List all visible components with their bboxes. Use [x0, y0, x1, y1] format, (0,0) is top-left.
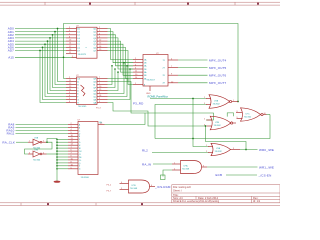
IC U2 74LS165 body — [76, 75, 97, 108]
wire vertical net x193 — [193, 99, 209, 147]
IC U2 pin numbers — [69, 77, 102, 103]
IC U7 pin names — [79, 123, 83, 170]
sheet frame top — [0, 2, 280, 5]
svg-text:MPX_OUT4: MPX_OUT4 — [209, 58, 227, 62]
svg-text:74LS02: 74LS02 — [244, 116, 252, 118]
title block — [172, 185, 280, 203]
svg-text:U?B: U?B — [34, 149, 39, 151]
wire column to ground — [56, 166, 58, 181]
wire bus drop verticals to U2 — [40, 29, 66, 103]
svg-text:P3_RD: P3_RD — [133, 102, 144, 106]
wire dot column vertical — [56, 139, 58, 167]
svg-text:U?A: U?A — [216, 147, 221, 150]
svg-text:ROM8_PanelMux: ROM8_PanelMux — [148, 95, 169, 99]
svg-text:RA_CLK: RA_CLK — [2, 140, 15, 144]
svg-text:File: testing.sch: File: testing.sch — [173, 185, 192, 189]
IC U1 pin names — [77, 28, 97, 52]
svg-text:U?B: U?B — [132, 185, 137, 187]
wire AD0 bus to U1 — [15, 29, 66, 51]
IC U2 pin names — [77, 78, 97, 104]
svg-text:Date: 2 Feb 2012: Date: 2 Feb 2012 — [198, 196, 219, 200]
IC U3 left pins — [133, 60, 143, 85]
svg-text:RA_W: RA_W — [142, 162, 151, 166]
wire WR0 out to label — [240, 149, 258, 151]
IC U2 right pins — [97, 79, 108, 103]
nor gate U4C — [236, 108, 267, 121]
svg-text:RA11: RA11 — [7, 132, 15, 136]
sheet frame bottom — [0, 203, 280, 206]
svg-text:Sheet: /: Sheet: / — [173, 189, 182, 193]
inverter U8B — [28, 149, 47, 161]
IC U3 74LS157 body — [143, 53, 168, 86]
wire RL2 to gate U5A — [152, 152, 209, 154]
svg-text:74LS04: 74LS04 — [33, 159, 41, 161]
wire feedback F out y141.5 — [206, 126, 247, 150]
wire U1 outputs fan to U3 — [108, 29, 134, 82]
svg-text:_/CS-RAM: _/CS-RAM — [154, 185, 171, 189]
and gate U6B CS-RAM — [120, 180, 156, 193]
svg-text:74LS08: 74LS08 — [182, 168, 190, 170]
junction dots on bus stair — [39, 28, 64, 59]
svg-text:74LS373: 74LS373 — [78, 54, 87, 56]
svg-text:74LS32: 74LS32 — [215, 151, 223, 153]
and gate U6A WR1 — [172, 161, 207, 174]
svg-text:KiCad E.D.A. eeschema (2011-1: KiCad E.D.A. eeschema (2011-12-28)-testi… — [173, 200, 220, 203]
wire inv2 out to dot column — [47, 153, 58, 155]
IC U3 pin numbers — [135, 58, 174, 85]
svg-text:_/CS-EN: _/CS-EN — [258, 174, 272, 178]
svg-text:QH: QH — [99, 122, 103, 124]
svg-text:WR0_/WE: WR0_/WE — [259, 148, 274, 152]
IC U1 pin numbers right — [99, 27, 102, 51]
frame tick dark marks — [47, 3, 259, 205]
svg-text:RL2: RL2 — [142, 148, 148, 152]
svg-text:74LS02: 74LS02 — [214, 125, 222, 127]
IC U1 right pins — [97, 29, 108, 51]
svg-text:MPX_OUT6: MPX_OUT6 — [209, 74, 227, 78]
svg-text:QG: QG — [93, 81, 97, 83]
svg-text:74LS02: 74LS02 — [213, 103, 221, 105]
or gate U5A WR0 — [206, 143, 240, 155]
svg-text:Size: A4: Size: A4 — [173, 196, 183, 200]
svg-text:MPX_OUT7: MPX_OUT7 — [209, 81, 227, 85]
IC U7 right pin — [98, 124, 105, 126]
wire U3 outputs — [178, 60, 208, 83]
junction dots mid — [111, 62, 247, 150]
wire gate U4A in2 with feedback drop — [155, 105, 207, 139]
svg-text:WR1_/WE: WR1_/WE — [259, 166, 274, 170]
wire inv1 out loop to inv2 in — [25, 142, 53, 154]
wire MPX top loop — [64, 24, 239, 102]
svg-text:U?B: U?B — [215, 122, 220, 124]
wire A15 horizontal — [15, 56, 77, 58]
nor gate U4A — [204, 95, 238, 109]
IC U7 74LS166 body — [78, 120, 99, 179]
svg-text:QH: QH — [93, 78, 97, 80]
IC U2 left pins — [66, 79, 77, 103]
svg-text:U?A: U?A — [184, 164, 189, 167]
svg-text:MPX_OUT5: MPX_OUT5 — [209, 66, 227, 70]
svg-text:QC: QC — [93, 96, 97, 98]
inverter U8A — [28, 137, 47, 150]
svg-text:U?A: U?A — [34, 137, 39, 140]
IC U3 right pins — [168, 60, 178, 83]
svg-text:74LS157: 74LS157 — [147, 80, 156, 82]
ground — [54, 181, 61, 183]
svg-text:U?C: U?C — [246, 113, 251, 115]
svg-text:ECB: ECB — [216, 173, 223, 177]
IC U7 left pins — [68, 125, 78, 169]
clock squiggle glyph — [81, 85, 86, 96]
wire clock branch to column top — [47, 139, 57, 143]
svg-text:U?A: U?A — [214, 99, 219, 102]
IC U3 gnd stub — [149, 86, 151, 91]
svg-text:QD: QD — [93, 93, 97, 95]
junction dots column — [46, 139, 58, 170]
IC U3 pin names — [144, 58, 166, 86]
nor gate U4B — [204, 116, 236, 130]
IC U7 pin numbers left — [71, 123, 74, 169]
svg-text:Id: 1/1: Id: 1/1 — [253, 199, 261, 203]
svg-text:74LS166: 74LS166 — [81, 177, 90, 179]
wire RA_CLK to inverter 1 — [16, 141, 28, 143]
wire ECB to CS-EN — [226, 174, 257, 176]
wire WR1 out to label — [207, 166, 258, 168]
wire feedback C out y138.5 — [155, 115, 270, 139]
svg-text:74LS165: 74LS165 — [78, 106, 87, 108]
wire column stubs to U7 pins — [57, 139, 68, 166]
IC U1 left pins — [66, 29, 77, 58]
wire U4B out to U4C in1 — [227, 113, 233, 117]
IC U1 74LS373 body — [76, 25, 97, 58]
IC U1 pin numbers left — [69, 27, 74, 58]
wire U6A in2 hook — [163, 170, 172, 177]
wire RA_W to gate U6A — [153, 163, 172, 165]
wire U2 right outputs rise to U3 — [108, 63, 214, 126]
wire U4C out feedback start — [267, 114, 271, 116]
svg-text:AD7: AD7 — [8, 49, 14, 53]
wire U7 QH out — [105, 113, 146, 125]
svg-text:74LS08: 74LS08 — [130, 188, 138, 190]
wire ROM8 to gate U4A in1 — [150, 98, 207, 100]
wire RA labels to U7 — [16, 125, 69, 134]
svg-text:A15: A15 — [8, 55, 14, 59]
wire U7 bottom pins from column — [57, 168, 68, 170]
